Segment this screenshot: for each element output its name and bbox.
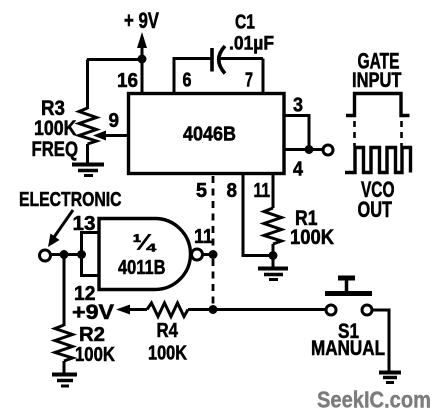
junction dot NAND output [209, 250, 218, 259]
svg-text:INPUT: INPUT [352, 69, 402, 92]
svg-text:ELECTRONIC: ELECTRONIC [19, 188, 122, 211]
+9V bottom arrow [116, 305, 130, 315]
junction dot to R2 [60, 250, 69, 259]
svg-text:6: 6 [183, 70, 192, 92]
junction dot at +9V [138, 55, 147, 64]
wire pin 3 stub [284, 116, 309, 150]
switch S1 right contact [362, 305, 372, 315]
resistor R2 [55, 325, 73, 361]
NAND output bubble [192, 249, 203, 260]
VCO out burst waveform [345, 148, 411, 173]
IC U1 4046B [129, 94, 285, 174]
svg-text:8: 8 [227, 180, 238, 202]
junction dot at input bar [77, 250, 86, 259]
svg-text:13: 13 [73, 212, 96, 235]
wire pin 11 lead [272, 175, 275, 208]
svg-text:4011B: 4011B [118, 256, 166, 279]
wire S1 to ground [372, 310, 389, 372]
svg-text:11: 11 [194, 225, 213, 248]
svg-text:+ 9V: + 9V [124, 8, 159, 33]
svg-text:11: 11 [254, 180, 271, 202]
wire pin 8 lead [243, 175, 273, 256]
resistor R1 [264, 208, 282, 244]
output terminal circle [323, 145, 333, 155]
resistor R4 [147, 303, 188, 317]
svg-text:3: 3 [293, 95, 303, 117]
wire top horizontal to R3 [87, 58, 142, 61]
svg-text:R4: R4 [157, 319, 179, 342]
svg-text:SeekIC.com: SeekIC.com [317, 387, 431, 413]
wire pin 12 stub [82, 274, 100, 277]
dashed wire NAND output to R4 node [212, 259, 215, 306]
dashed edge left [353, 121, 356, 146]
junction dot R1 bottom [269, 251, 278, 260]
capacitor C1 plates [210, 48, 214, 72]
wire to R2 [63, 255, 66, 327]
ELECTRONIC input terminal circle [40, 250, 51, 261]
svg-text:OUT: OUT [358, 197, 393, 222]
NAND gate U2 4011B [99, 219, 190, 290]
svg-text:C1: C1 [235, 12, 255, 34]
svg-text:.01µF: .01µF [229, 34, 274, 55]
wire pin 13 stub [82, 231, 100, 234]
capacitor C1 loop : pin 6 lead [173, 59, 176, 95]
switch S1 stem [345, 280, 349, 293]
wire pin 4 stub [284, 148, 309, 151]
wire NAND output [203, 253, 210, 256]
svg-text:MANUAL: MANUAL [311, 337, 385, 360]
wire R4 to S1 [188, 308, 326, 311]
svg-text:100K: 100K [148, 342, 187, 365]
wire to output terminal [309, 148, 322, 151]
junction dot pins 3-4 [305, 145, 314, 154]
dashed wire pin 5 to NAND output [212, 176, 215, 250]
wire cap right [220, 57, 263, 60]
ground below R1 [258, 267, 288, 271]
wire input bar [80, 231, 83, 277]
wire pin 7 lead [262, 59, 265, 95]
switch S1 handle [338, 276, 355, 281]
dashed edge right [400, 121, 403, 146]
R3 wiper arrow pin 9 [104, 134, 129, 137]
switch S1 left contact [326, 305, 336, 315]
switch S1 actuator bar [325, 291, 372, 296]
ELECTRONIC pointer arrow [52, 210, 73, 240]
svg-text:4: 4 [293, 159, 304, 181]
node +9V top arrow [137, 32, 147, 48]
svg-text:9: 9 [109, 110, 120, 132]
svg-text:7: 7 [245, 70, 253, 92]
svg-text:4046B: 4046B [183, 123, 236, 146]
wire cap left [173, 57, 213, 60]
svg-text:+9V: +9V [72, 301, 114, 324]
svg-text:100K: 100K [290, 226, 334, 249]
junction dot dashed node [209, 305, 218, 314]
wire down to R3 [86, 60, 89, 110]
resistor R3 (pot) [79, 108, 97, 144]
wire input to NAND [51, 253, 82, 256]
svg-text:100K: 100K [34, 117, 77, 140]
svg-text:¼: ¼ [133, 230, 157, 255]
ground below R3 [72, 163, 104, 167]
ground below R2 [52, 373, 77, 377]
svg-text:FREQ: FREQ [32, 138, 79, 161]
svg-text:100K: 100K [75, 343, 115, 366]
ground below S1 [379, 371, 401, 375]
wire pin16 lead [141, 59, 144, 94]
gate input pulse waveform [346, 94, 410, 116]
svg-text:5: 5 [196, 180, 207, 202]
svg-text:16: 16 [117, 70, 138, 92]
